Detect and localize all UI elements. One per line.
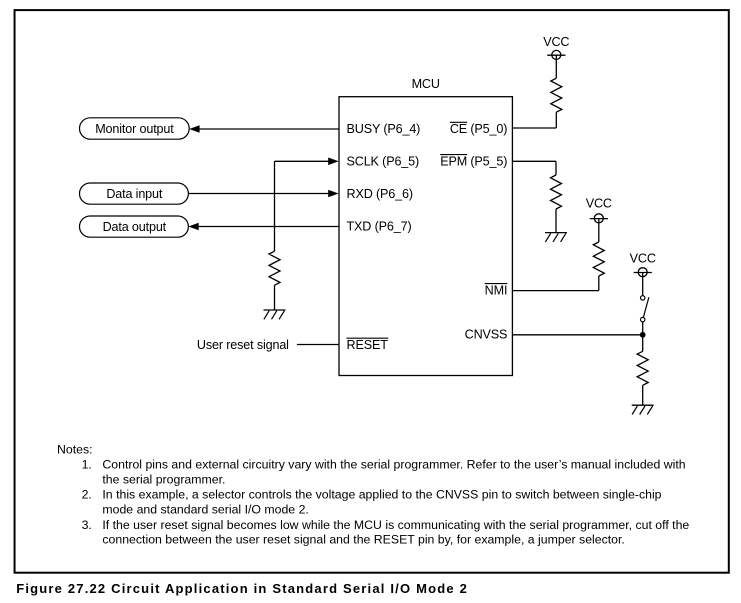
arrowhead into RXD pin bbox=[328, 190, 338, 198]
svg-text:VCC: VCC bbox=[543, 35, 569, 49]
resistor CE pull-up bbox=[551, 78, 562, 112]
wire EPM node down to resistor bbox=[555, 161, 557, 175]
svg-text:3.: 3. bbox=[82, 518, 92, 532]
svg-text:Monitor output: Monitor output bbox=[95, 122, 174, 136]
power VCC (CE pull-up) bbox=[543, 35, 569, 59]
wire user reset signal to RESET pin bbox=[297, 344, 339, 346]
svg-text:User reset signal: User reset signal bbox=[197, 338, 289, 352]
svg-text:MCU: MCU bbox=[412, 77, 440, 91]
resistor CNVSS pull-down bbox=[637, 351, 648, 385]
svg-text:connection between the user re: connection between the user reset signal… bbox=[102, 533, 624, 547]
arrowhead into Data output bbox=[188, 223, 198, 231]
svg-text:TXD (P6_7): TXD (P6_7) bbox=[347, 219, 412, 233]
wire resistor down to CE node bbox=[555, 112, 557, 128]
switch S1 (mode selector) bbox=[641, 296, 649, 322]
wire Data input to RXD (P6_6) bbox=[188, 193, 328, 195]
svg-text:Data input: Data input bbox=[106, 187, 163, 201]
resistor EPM pull-down bbox=[551, 175, 562, 209]
svg-text:Notes:: Notes: bbox=[57, 442, 93, 456]
svg-text:VCC: VCC bbox=[586, 197, 612, 211]
resistor SCLK pull-down bbox=[269, 251, 280, 285]
svg-text:BUSY (P6_4): BUSY (P6_4) bbox=[347, 122, 421, 136]
svg-text:If the user reset signal becom: If the user reset signal becomes low whi… bbox=[102, 518, 689, 532]
pin CE (P5_0) label (active-low overline) bbox=[450, 122, 507, 136]
wire VCC to resistor bbox=[555, 55, 557, 78]
Data output callout bbox=[80, 216, 189, 237]
svg-text:2.: 2. bbox=[82, 488, 92, 502]
ground (CNVSS pull-down) bbox=[632, 405, 654, 414]
wire resistor to ground bbox=[555, 209, 557, 233]
svg-text:mode and standard serial I/O m: mode and standard serial I/O mode 2. bbox=[102, 503, 308, 517]
wire SCLK (P6_5) horizontal bbox=[275, 160, 329, 162]
svg-text:In this example, a selector co: In this example, a selector controls the… bbox=[102, 488, 661, 502]
arrowhead into Monitor output bbox=[189, 125, 199, 133]
notes text block bbox=[57, 442, 689, 546]
junction CNVSS node bbox=[640, 332, 646, 338]
wire switch to CNVSS node bbox=[642, 322, 644, 335]
Data input callout bbox=[80, 183, 189, 204]
wire CNVSS node to resistor bbox=[642, 335, 644, 352]
power VCC (CNVSS selector) bbox=[630, 251, 656, 276]
wire NMI pin bbox=[512, 290, 598, 292]
wire resistor down to NMI wire bbox=[598, 276, 600, 291]
svg-text:the serial programmer.: the serial programmer. bbox=[102, 472, 225, 486]
Monitor output callout bbox=[80, 118, 190, 139]
arrowhead into SCLK pin bbox=[328, 158, 338, 166]
svg-text:VCC: VCC bbox=[630, 251, 656, 265]
svg-text:1.: 1. bbox=[82, 457, 92, 471]
wire BUSY (P6_4) to Monitor output bbox=[197, 128, 339, 130]
svg-text:CE (P5_0): CE (P5_0) bbox=[450, 122, 507, 136]
MCU U1 box bbox=[339, 97, 512, 376]
svg-text:CNVSS: CNVSS bbox=[465, 328, 508, 342]
svg-text:RESET: RESET bbox=[347, 338, 389, 352]
svg-text:SCLK (P6_5): SCLK (P6_5) bbox=[347, 154, 420, 168]
ground (EPM pull-down) bbox=[545, 233, 567, 242]
wire CE (P5_0) pin bbox=[512, 127, 556, 129]
wire EPM (P5_5) pin bbox=[512, 160, 556, 162]
svg-text:Data output: Data output bbox=[103, 220, 167, 234]
svg-text:Control pins and external circ: Control pins and external circuitry vary… bbox=[102, 457, 685, 471]
wire TXD (P6_7) to Data output bbox=[198, 226, 339, 228]
power VCC (NMI pull-up) bbox=[586, 197, 612, 223]
svg-text:Figure 27.22 Circuit Applicat: Figure 27.22 Circuit Application in Stan… bbox=[16, 581, 468, 596]
wire resistor to ground bbox=[274, 285, 276, 310]
svg-text:RXD (P6_6): RXD (P6_6) bbox=[347, 187, 413, 201]
wire SCLK vertical to pull-down resistor bbox=[274, 161, 276, 251]
resistor NMI pull-up bbox=[593, 242, 604, 276]
wire VCC to resistor bbox=[598, 219, 600, 242]
pin RESET label (active-low overline) bbox=[347, 338, 389, 352]
ground (SCLK pull-down) bbox=[264, 310, 286, 319]
wire VCC to switch bbox=[642, 273, 644, 296]
wire resistor to ground bbox=[642, 385, 644, 405]
svg-text:EPM (P5_5): EPM (P5_5) bbox=[440, 154, 507, 168]
pin EPM (P5_5) label (active-low overline) bbox=[440, 154, 507, 168]
wire CNVSS pin bbox=[512, 334, 642, 336]
svg-text:NMI: NMI bbox=[485, 283, 508, 297]
pin NMI label (active-low overline) bbox=[485, 283, 508, 297]
